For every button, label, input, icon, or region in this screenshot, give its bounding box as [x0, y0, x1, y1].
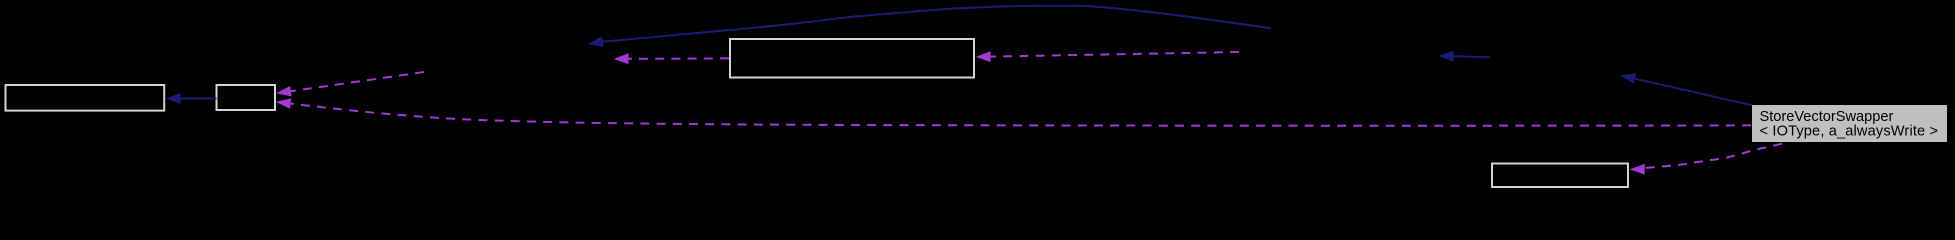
edge: dashed usage into node C left side: [614, 53, 730, 64]
edge: dashed usage into node B upper-right: [276, 72, 424, 96]
node A (far-left class box): [6, 85, 165, 111]
svg-text:< IOType, a_alwaysWrite >: < IOType, a_alwaysWrite >: [1760, 124, 1939, 140]
edge: long navy inheritance curve over node C: [588, 6, 1271, 47]
node C (center-top class box): [730, 39, 974, 78]
edge: dashed usage into node C right side: [976, 51, 1239, 62]
node D (bottom-right class box): [1492, 164, 1628, 188]
edge: navy arrow from StoreVectorSwapper up-left: [1620, 73, 1752, 105]
edge: dashed usage from StoreVectorSwapper to node B (long curve): [276, 98, 1751, 125]
edge: dashed usage from StoreVectorSwapper to node D: [1630, 143, 1787, 175]
edge: short navy arrow (mid-right): [1439, 51, 1490, 62]
edge: inheritance arrow B to A (navy): [166, 93, 217, 104]
node B (small class box): [217, 85, 276, 110]
node StoreVectorSwapper (current class, grey): [1752, 105, 1947, 142]
